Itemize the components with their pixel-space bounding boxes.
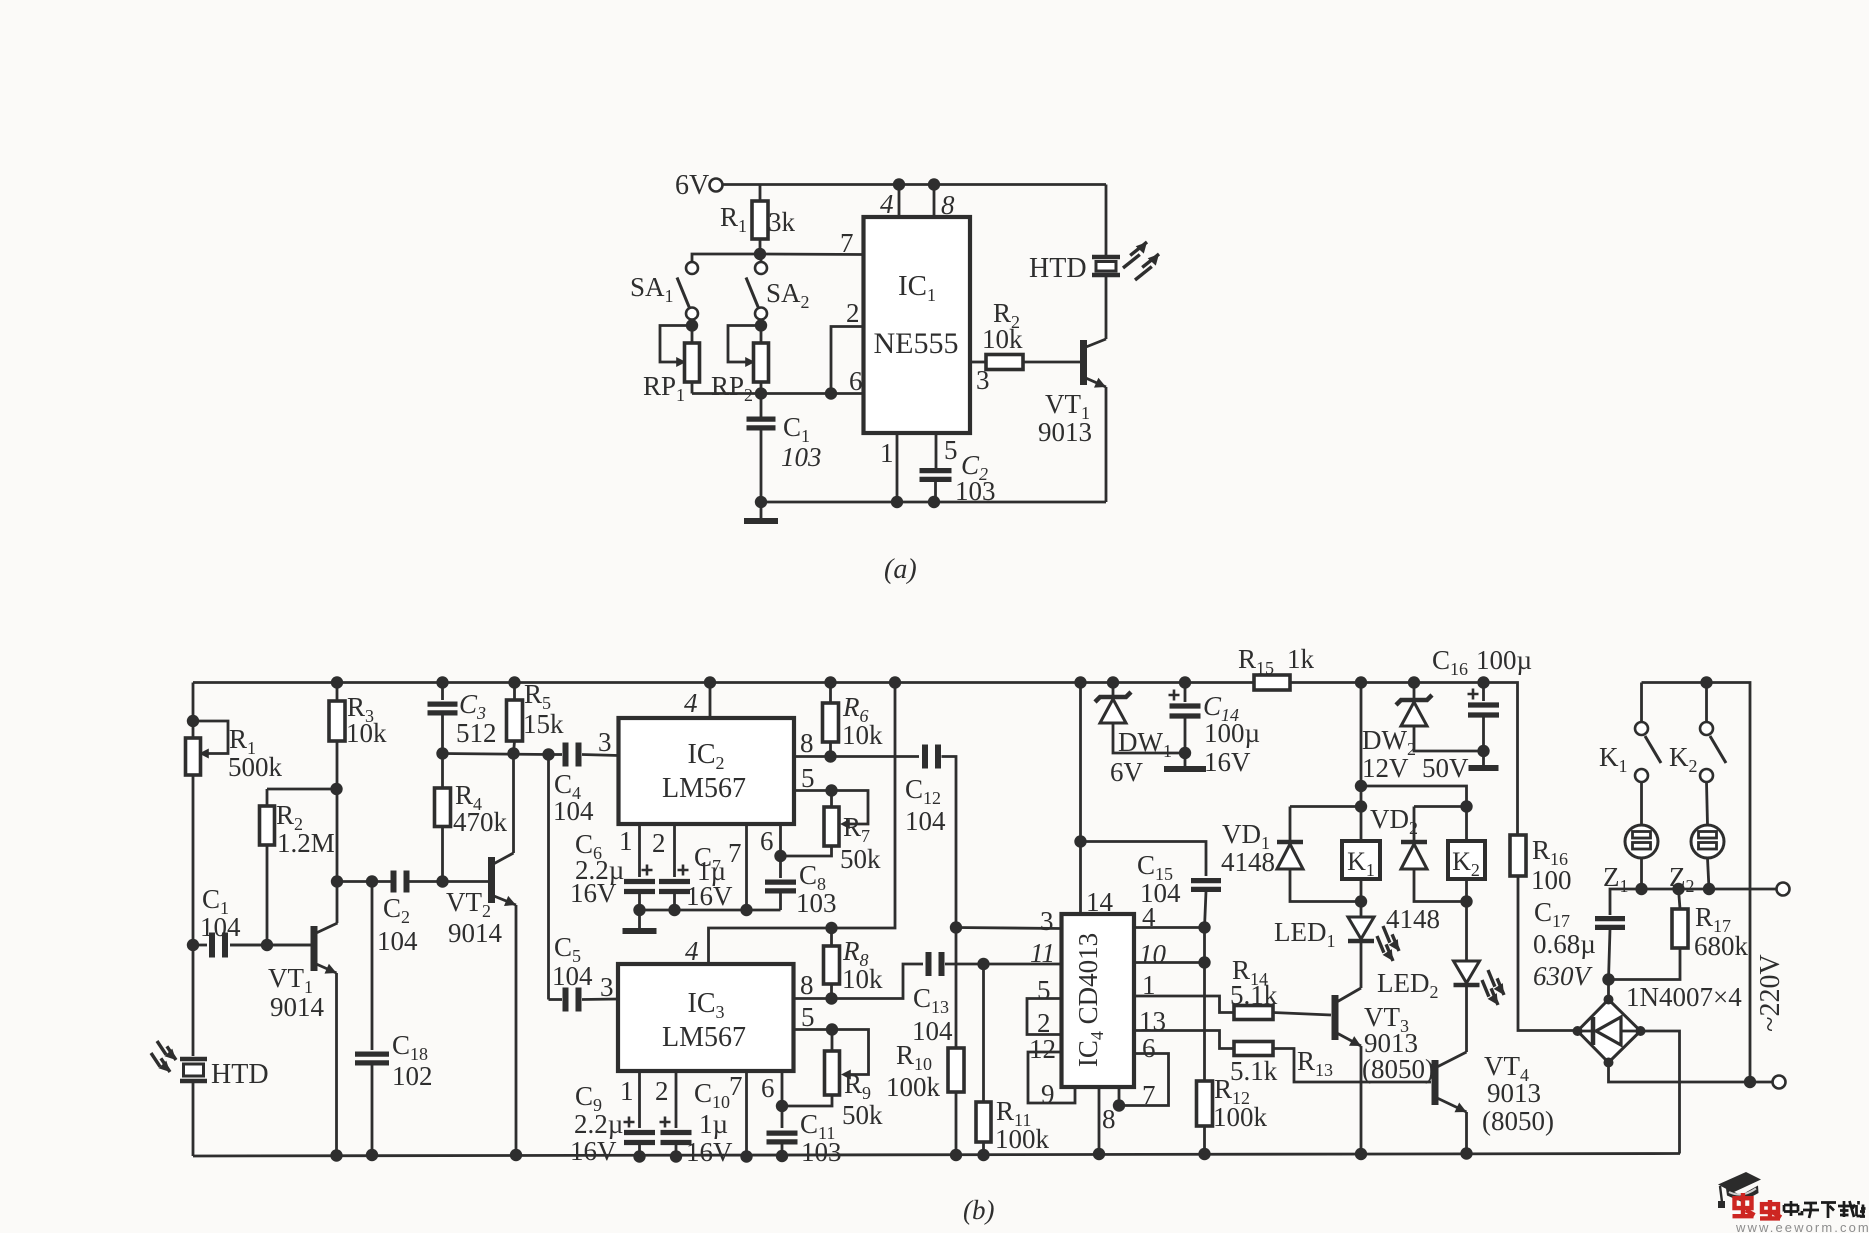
- bridge rectifier 1N4007x4: [1607, 980, 1610, 1001]
- transistor Q VT3 9013(8050): [1332, 995, 1339, 1040]
- svg-text:100k: 100k: [1213, 1102, 1268, 1132]
- svg-text:104: 104: [912, 1016, 953, 1046]
- capacitor C2 (104): [337, 880, 391, 883]
- svg-text:680k: 680k: [1694, 931, 1749, 961]
- transistor Q VT2 9014: [488, 857, 495, 903]
- pin 1 lead: [896, 433, 899, 502]
- svg-text:6V: 6V: [675, 170, 709, 201]
- wire C15 branch: [1081, 842, 1207, 877]
- svg-text:2: 2: [652, 828, 666, 858]
- wire pin 1 IC4 to R14: [1134, 996, 1234, 1013]
- terminal AC upper: [1777, 883, 1790, 896]
- svg-text:104: 104: [553, 796, 594, 826]
- svg-text:7: 7: [729, 1071, 743, 1101]
- svg-text:9013: 9013: [1487, 1078, 1541, 1108]
- wire R1 node to SA1: [692, 254, 760, 262]
- capacitor C14 (100u) electrolytic: [1179, 676, 1191, 688]
- svg-text:5: 5: [944, 435, 958, 465]
- svg-text:IC4 CD4013: IC4 CD4013: [1073, 933, 1107, 1067]
- svg-text:5.1k: 5.1k: [1230, 1056, 1278, 1086]
- capacitor C10 (1u) electrolytic: [661, 1133, 692, 1143]
- pin 5 wire IC3: [794, 1028, 833, 1031]
- switch K2 contact: [1705, 683, 1708, 723]
- ground C16: [1482, 751, 1485, 768]
- svg-text:6: 6: [761, 1073, 775, 1103]
- svg-text:1µ: 1µ: [699, 1109, 728, 1139]
- relay coil K1: [1342, 841, 1380, 879]
- svg-text:9014: 9014: [448, 918, 503, 948]
- wire R8 feed from rail: [889, 676, 901, 688]
- wire pin 10 IC4: [1134, 961, 1205, 964]
- node C4/C5 branch: [542, 748, 554, 760]
- svg-text:104: 104: [1140, 878, 1181, 908]
- svg-text:5: 5: [801, 763, 815, 793]
- loop pins 12-9: [1028, 1052, 1075, 1103]
- resistor R10 (100k): [950, 921, 962, 933]
- resistor R6 (10k): [824, 676, 836, 688]
- pin 8 lead: [933, 185, 936, 218]
- svg-text:8: 8: [800, 970, 814, 1000]
- node R5/VT2 collector: [507, 747, 519, 759]
- node pin7/R1 junction: [754, 248, 766, 260]
- svg-text:7: 7: [1142, 1080, 1156, 1110]
- resistor R17 (680k): [1679, 889, 1681, 909]
- svg-text:14: 14: [1086, 887, 1114, 917]
- wire bottom rail (b): [193, 1154, 1680, 1157]
- wire top rail right of R15: [1290, 683, 1518, 836]
- pin 8 lead IC4: [1098, 1087, 1101, 1154]
- relay coil K2: [1448, 841, 1485, 879]
- svg-text:3: 3: [598, 727, 612, 757]
- svg-text:1: 1: [620, 1076, 634, 1106]
- wire collector to HTD: [1105, 277, 1108, 339]
- svg-text:11: 11: [1030, 938, 1055, 968]
- wire mains line upper: [1610, 889, 1777, 915]
- capacitor C3 (512): [436, 676, 448, 688]
- buzzer HTD (b): [180, 1059, 207, 1081]
- node R3/R2/collector: [330, 783, 342, 795]
- wire bridge right to bottom rail: [1641, 1031, 1680, 1154]
- node pin4/R12: [1198, 921, 1210, 933]
- pin 4 lead IC2: [709, 683, 712, 719]
- svg-text:9014: 9014: [270, 992, 325, 1022]
- node pin10/R12: [1198, 956, 1210, 968]
- svg-text:www.eeworm.com: www.eeworm.com: [1735, 1220, 1869, 1233]
- svg-text:2: 2: [846, 298, 860, 328]
- potentiometer R7 (50k): [825, 784, 837, 796]
- resistor R1 (3k): [759, 185, 762, 202]
- watermark chongchong red characters: [1733, 1193, 1755, 1216]
- svg-text:16V: 16V: [1204, 747, 1251, 777]
- capacitor C17 (0.68u 630V): [1595, 919, 1625, 928]
- wire pin 2: [831, 327, 864, 394]
- resistor R8 (10k): [830, 928, 833, 946]
- svg-text:5: 5: [1037, 975, 1051, 1005]
- svg-text:103: 103: [796, 888, 837, 918]
- pin 14 lead IC4: [1079, 683, 1082, 915]
- node R4/VT2 base: [436, 875, 448, 887]
- node C17/R17/bridge: [1602, 973, 1614, 985]
- svg-text:50k: 50k: [842, 1100, 883, 1130]
- capacitor C8 (103): [765, 882, 796, 891]
- diode VD2 (4148): [1414, 805, 1467, 808]
- svg-text:470k: 470k: [453, 807, 508, 837]
- capacitor C12 (104): [925, 745, 938, 769]
- wire y754 line: [443, 754, 549, 755]
- wire emitter to rail: [1105, 387, 1108, 502]
- node R8 top: [825, 922, 837, 934]
- transistor Q VT1 9013: [1080, 340, 1087, 385]
- resistor R12 (100k): [1203, 928, 1206, 1082]
- resistor R2 (10k): [970, 361, 986, 364]
- node C1 tap: [187, 939, 199, 951]
- pin 6 lead IC3 / node C11: [781, 1071, 784, 1128]
- wire base from C1: [230, 944, 311, 947]
- wire VT2 collector up: [512, 754, 515, 854]
- svg-text:1: 1: [880, 438, 894, 468]
- switch SA2: [760, 254, 763, 262]
- svg-text:1: 1: [1142, 970, 1156, 1000]
- socket Z1: [1625, 825, 1658, 858]
- node SA2/RP2: [755, 319, 767, 331]
- wire HTD top: [1105, 185, 1108, 256]
- watermark logo graduation cap: [1718, 1172, 1761, 1193]
- LED2: [1465, 902, 1468, 961]
- capacitor C7 (1u) electrolytic: [659, 882, 690, 892]
- svg-text:16V: 16V: [570, 1136, 617, 1166]
- svg-text:100k: 100k: [995, 1124, 1050, 1154]
- svg-text:7: 7: [728, 838, 742, 868]
- wire to pin 7: [760, 253, 864, 256]
- watermark site name characters: [1784, 1201, 1802, 1216]
- svg-text:(8050): (8050): [1362, 1054, 1434, 1084]
- svg-text:2.2µ: 2.2µ: [574, 1109, 623, 1139]
- node C18 tap: [366, 875, 378, 887]
- svg-text:HTD: HTD: [211, 1059, 269, 1090]
- resistor R13 (5.1k): [1234, 1042, 1273, 1056]
- node pin2 branch: [825, 387, 837, 399]
- svg-text:6: 6: [760, 826, 774, 856]
- capacitor C1 (103): [760, 394, 763, 418]
- pin 2 lead IC2: [673, 824, 676, 877]
- svg-text:10: 10: [1139, 939, 1167, 969]
- wire K1 column: [1360, 683, 1363, 842]
- svg-text:100µ: 100µ: [1204, 718, 1260, 748]
- svg-text:4: 4: [684, 688, 698, 718]
- resistor R11 (100k): [982, 964, 985, 1102]
- svg-text:4148: 4148: [1221, 847, 1275, 877]
- pin 4 lead: [898, 185, 901, 218]
- svg-text:1k: 1k: [1287, 644, 1315, 674]
- capacitor C11 (103): [767, 1133, 798, 1142]
- svg-text:6: 6: [849, 366, 863, 396]
- node R11/C13: [977, 958, 989, 970]
- svg-text:16V: 16V: [686, 881, 733, 911]
- wire top rail (a): [723, 183, 1107, 186]
- svg-text:2: 2: [655, 1076, 669, 1106]
- svg-text:LM567: LM567: [662, 773, 746, 804]
- svg-text:103: 103: [801, 1137, 842, 1167]
- zener DW2 (12V): [1408, 676, 1420, 688]
- svg-text:630V: 630V: [1533, 961, 1594, 991]
- potentiometer RP2: [728, 326, 761, 363]
- svg-text:1: 1: [619, 826, 633, 856]
- node ground rail left: [755, 496, 767, 508]
- potentiometer RP1: [660, 326, 692, 363]
- wire collector column VT1: [336, 789, 339, 923]
- LED1: [1360, 902, 1363, 917]
- pin 8 wire IC2: [794, 755, 919, 758]
- potentiometer R1 (500k): [187, 715, 199, 727]
- svg-text:LED2: LED2: [1377, 968, 1438, 1002]
- capacitor C16 (100u 50V) electrolytic: [1477, 676, 1489, 688]
- pin 5 wire IC2: [794, 789, 832, 792]
- resistor R15 (1k) in rail: [1254, 675, 1290, 690]
- switch SA1: [686, 262, 698, 274]
- svg-text:10k: 10k: [982, 324, 1023, 354]
- wire K2 branch: [1361, 786, 1467, 841]
- resistor R14 (5.1k): [1234, 1006, 1273, 1020]
- svg-text:8: 8: [800, 728, 814, 758]
- ground C14: [1184, 753, 1187, 769]
- node C3/R4: [436, 747, 448, 759]
- buzzer HTD (a): [1092, 257, 1120, 275]
- capacitor C1 (104): [193, 944, 207, 947]
- IC U4 CD4013 box: [1062, 914, 1135, 1087]
- svg-text:0.68µ: 0.68µ: [1533, 929, 1596, 959]
- svg-text:5.1k: 5.1k: [1230, 980, 1278, 1010]
- capacitor C4 (104): [549, 753, 563, 756]
- pin 6 lead IC2 / node C8: [779, 824, 782, 878]
- terminal AC lower: [1773, 1076, 1786, 1089]
- svg-text:HTD: HTD: [1029, 253, 1087, 284]
- svg-text:16V: 16V: [686, 1137, 733, 1167]
- svg-text:1N4007×4: 1N4007×4: [1626, 982, 1742, 1012]
- potentiometer R9 (50k): [826, 1023, 838, 1035]
- ground (a): [760, 502, 763, 521]
- svg-text:10k: 10k: [842, 964, 883, 994]
- transistor Q VT1 9014: [311, 926, 318, 971]
- resistor R16 (100): [1510, 835, 1526, 876]
- pin 7 lead IC2: [745, 824, 748, 910]
- svg-text:50V: 50V: [1422, 753, 1469, 783]
- svg-text:(b): (b): [963, 1195, 994, 1225]
- wire top rail (b): [193, 681, 1254, 684]
- capacitor C2 (103): [920, 471, 952, 480]
- svg-text:4: 4: [685, 936, 699, 966]
- svg-text:10k: 10k: [842, 720, 883, 750]
- svg-text:104: 104: [552, 961, 593, 991]
- transistor Q VT4 9013(8050): [1432, 1060, 1439, 1105]
- svg-text:8: 8: [1102, 1104, 1116, 1134]
- wire left rail: [192, 683, 195, 739]
- terminal 6V supply: [710, 179, 723, 192]
- svg-text:512: 512: [456, 718, 497, 748]
- node collector / C2 tap: [331, 875, 343, 887]
- pin 8 wire IC3: [794, 964, 924, 999]
- svg-text:100µ: 100µ: [1476, 645, 1532, 675]
- capacitor C5 (104): [549, 998, 563, 1001]
- ground IC2: [638, 910, 641, 931]
- diode VD1 (4148): [1290, 805, 1361, 808]
- wire VT2 emitter down: [515, 905, 518, 1155]
- zener DW1 (6V): [1107, 676, 1119, 688]
- capacitor C13 (104): [929, 952, 942, 976]
- svg-text:103: 103: [781, 442, 822, 472]
- wire bottom rail (a): [761, 501, 1106, 504]
- svg-text:100: 100: [1531, 865, 1572, 895]
- svg-text:4148: 4148: [1386, 904, 1440, 934]
- svg-text:12V: 12V: [1362, 753, 1409, 783]
- svg-text:9: 9: [1041, 1079, 1055, 1109]
- IC op U1 NE555 box: [864, 217, 971, 433]
- svg-text:3: 3: [600, 972, 614, 1002]
- IC U3 LM567 box: [618, 964, 794, 1071]
- svg-text:16V: 16V: [570, 878, 617, 908]
- pin 1 lead IC3: [638, 1071, 641, 1128]
- wire C5 branch: [547, 755, 550, 1000]
- svg-text:1.2M: 1.2M: [277, 828, 335, 858]
- svg-text:6V: 6V: [1110, 757, 1144, 787]
- svg-text:103: 103: [955, 476, 996, 506]
- resistor R5 (15k): [508, 676, 520, 688]
- wire bridge bottom to terminal: [1609, 1063, 1773, 1083]
- svg-text:3: 3: [1040, 906, 1054, 936]
- svg-text:104: 104: [200, 912, 241, 942]
- svg-text:13: 13: [1139, 1006, 1166, 1036]
- node RP2/C1: [755, 387, 767, 399]
- svg-text:4: 4: [880, 189, 894, 219]
- node SA1/RP1: [686, 319, 698, 331]
- svg-text:50k: 50k: [840, 844, 881, 874]
- svg-text:104: 104: [905, 806, 946, 836]
- svg-text:5: 5: [801, 1002, 815, 1032]
- svg-text:NE555: NE555: [874, 327, 959, 360]
- resistor R4 (470k): [441, 754, 444, 789]
- loop pins 5-2: [1027, 999, 1062, 1035]
- svg-text:6: 6: [1142, 1033, 1156, 1063]
- wire K contacts top line: [1642, 683, 1751, 1083]
- node K1 column top: [1355, 676, 1367, 688]
- wire pin 4 IC4: [1134, 926, 1205, 929]
- wire pin6 line: [692, 392, 864, 395]
- wire pin 13 IC4 to R13: [1134, 1031, 1234, 1049]
- svg-text:104: 104: [377, 926, 418, 956]
- wire analog ground line: [640, 909, 781, 912]
- svg-text:10k: 10k: [346, 718, 387, 748]
- svg-text:100k: 100k: [886, 1072, 941, 1102]
- svg-text:8: 8: [941, 190, 955, 220]
- svg-text:3k: 3k: [768, 207, 796, 237]
- svg-text:15k: 15k: [523, 709, 564, 739]
- pin 1 lead IC2: [638, 824, 641, 877]
- capacitor C18 (102): [371, 882, 374, 1051]
- resistor R2 (1.2M): [261, 939, 273, 951]
- svg-text:LED1: LED1: [1274, 917, 1335, 951]
- svg-text:500k: 500k: [228, 752, 283, 782]
- svg-text:102: 102: [392, 1061, 433, 1091]
- wire IC4 pin3: [956, 928, 1062, 929]
- svg-text:12: 12: [1029, 1034, 1056, 1064]
- svg-text:~220V: ~220V: [1755, 954, 1786, 1031]
- svg-text:(8050): (8050): [1482, 1106, 1554, 1136]
- loop pins 6-7: [1119, 1054, 1169, 1106]
- svg-text:9013: 9013: [1038, 417, 1092, 447]
- svg-text:7: 7: [840, 228, 854, 258]
- pin 2 lead IC3: [675, 1071, 678, 1128]
- wire VT1 emitter down: [335, 973, 338, 1156]
- pin 7 lead IC3: [745, 1071, 748, 1157]
- resistor R3 (10k): [331, 676, 343, 688]
- IC U2 LM567 box: [619, 718, 795, 824]
- socket Z2: [1691, 825, 1724, 858]
- svg-text:LM567: LM567: [662, 1022, 746, 1053]
- svg-text:(a): (a): [884, 554, 917, 585]
- pin 5 lead: [935, 433, 938, 468]
- capacitor C15 (104): [1191, 881, 1221, 890]
- capacitor C6 (2.2u) electrolytic: [624, 882, 655, 892]
- capacitor C9 (2.2u) electrolytic: [624, 1133, 655, 1143]
